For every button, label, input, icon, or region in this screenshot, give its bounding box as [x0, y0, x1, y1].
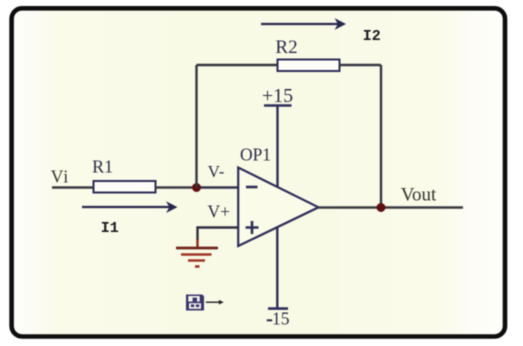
resistor R1 — [94, 181, 156, 193]
ground — [176, 239, 218, 267]
svg-text:Vi: Vi — [51, 166, 69, 186]
wire node A to op-amp inverting input — [197, 186, 239, 188]
floppy icon — [186, 295, 204, 311]
svg-text:I2: I2 — [363, 28, 381, 45]
wire R1 to node A — [156, 186, 197, 188]
svg-text:OP1: OP1 — [240, 144, 271, 164]
wire output — [319, 206, 464, 208]
power -15 supply bar — [268, 228, 288, 309]
label Vout — [401, 185, 437, 206]
op-amp OP1 — [238, 168, 318, 247]
label Vi — [51, 166, 69, 186]
label I1 — [101, 220, 119, 237]
svg-text:Vout: Vout — [401, 185, 437, 206]
wire feedback right vertical — [380, 65, 382, 208]
label I2 — [363, 28, 381, 45]
label R1 — [92, 157, 113, 177]
label V- — [208, 162, 225, 181]
svg-text:+15: +15 — [262, 85, 293, 107]
wire feedback left vertical — [195, 65, 197, 188]
op-amp plus sign — [246, 221, 259, 234]
wire op-amp noninverting input — [198, 228, 239, 241]
svg-text:I1: I1 — [101, 220, 119, 237]
resistor R2 — [278, 60, 340, 72]
svg-text:R1: R1 — [92, 157, 113, 177]
label OP1 — [240, 144, 271, 164]
arrow beside floppy icon — [206, 300, 224, 305]
svg-text:R2: R2 — [275, 37, 297, 58]
op-amp minus sign — [246, 186, 258, 189]
label R2 — [275, 37, 297, 58]
node B junction dot — [377, 203, 386, 212]
label -15 — [267, 309, 290, 329]
wire feedback top left to R2 — [197, 64, 278, 66]
svg-text:15: 15 — [272, 309, 290, 329]
label +15 — [262, 85, 293, 107]
wire R2 to feedback right vertical — [340, 64, 382, 66]
label V+ — [207, 202, 230, 222]
svg-text:V+: V+ — [207, 202, 230, 222]
current arrow I1 — [82, 201, 178, 213]
svg-text:V-: V- — [208, 162, 225, 181]
node A junction dot — [192, 183, 201, 192]
current arrow I2 — [261, 18, 346, 30]
power +15 supply bar — [264, 106, 292, 188]
wire input Vi to R1 — [52, 186, 93, 188]
